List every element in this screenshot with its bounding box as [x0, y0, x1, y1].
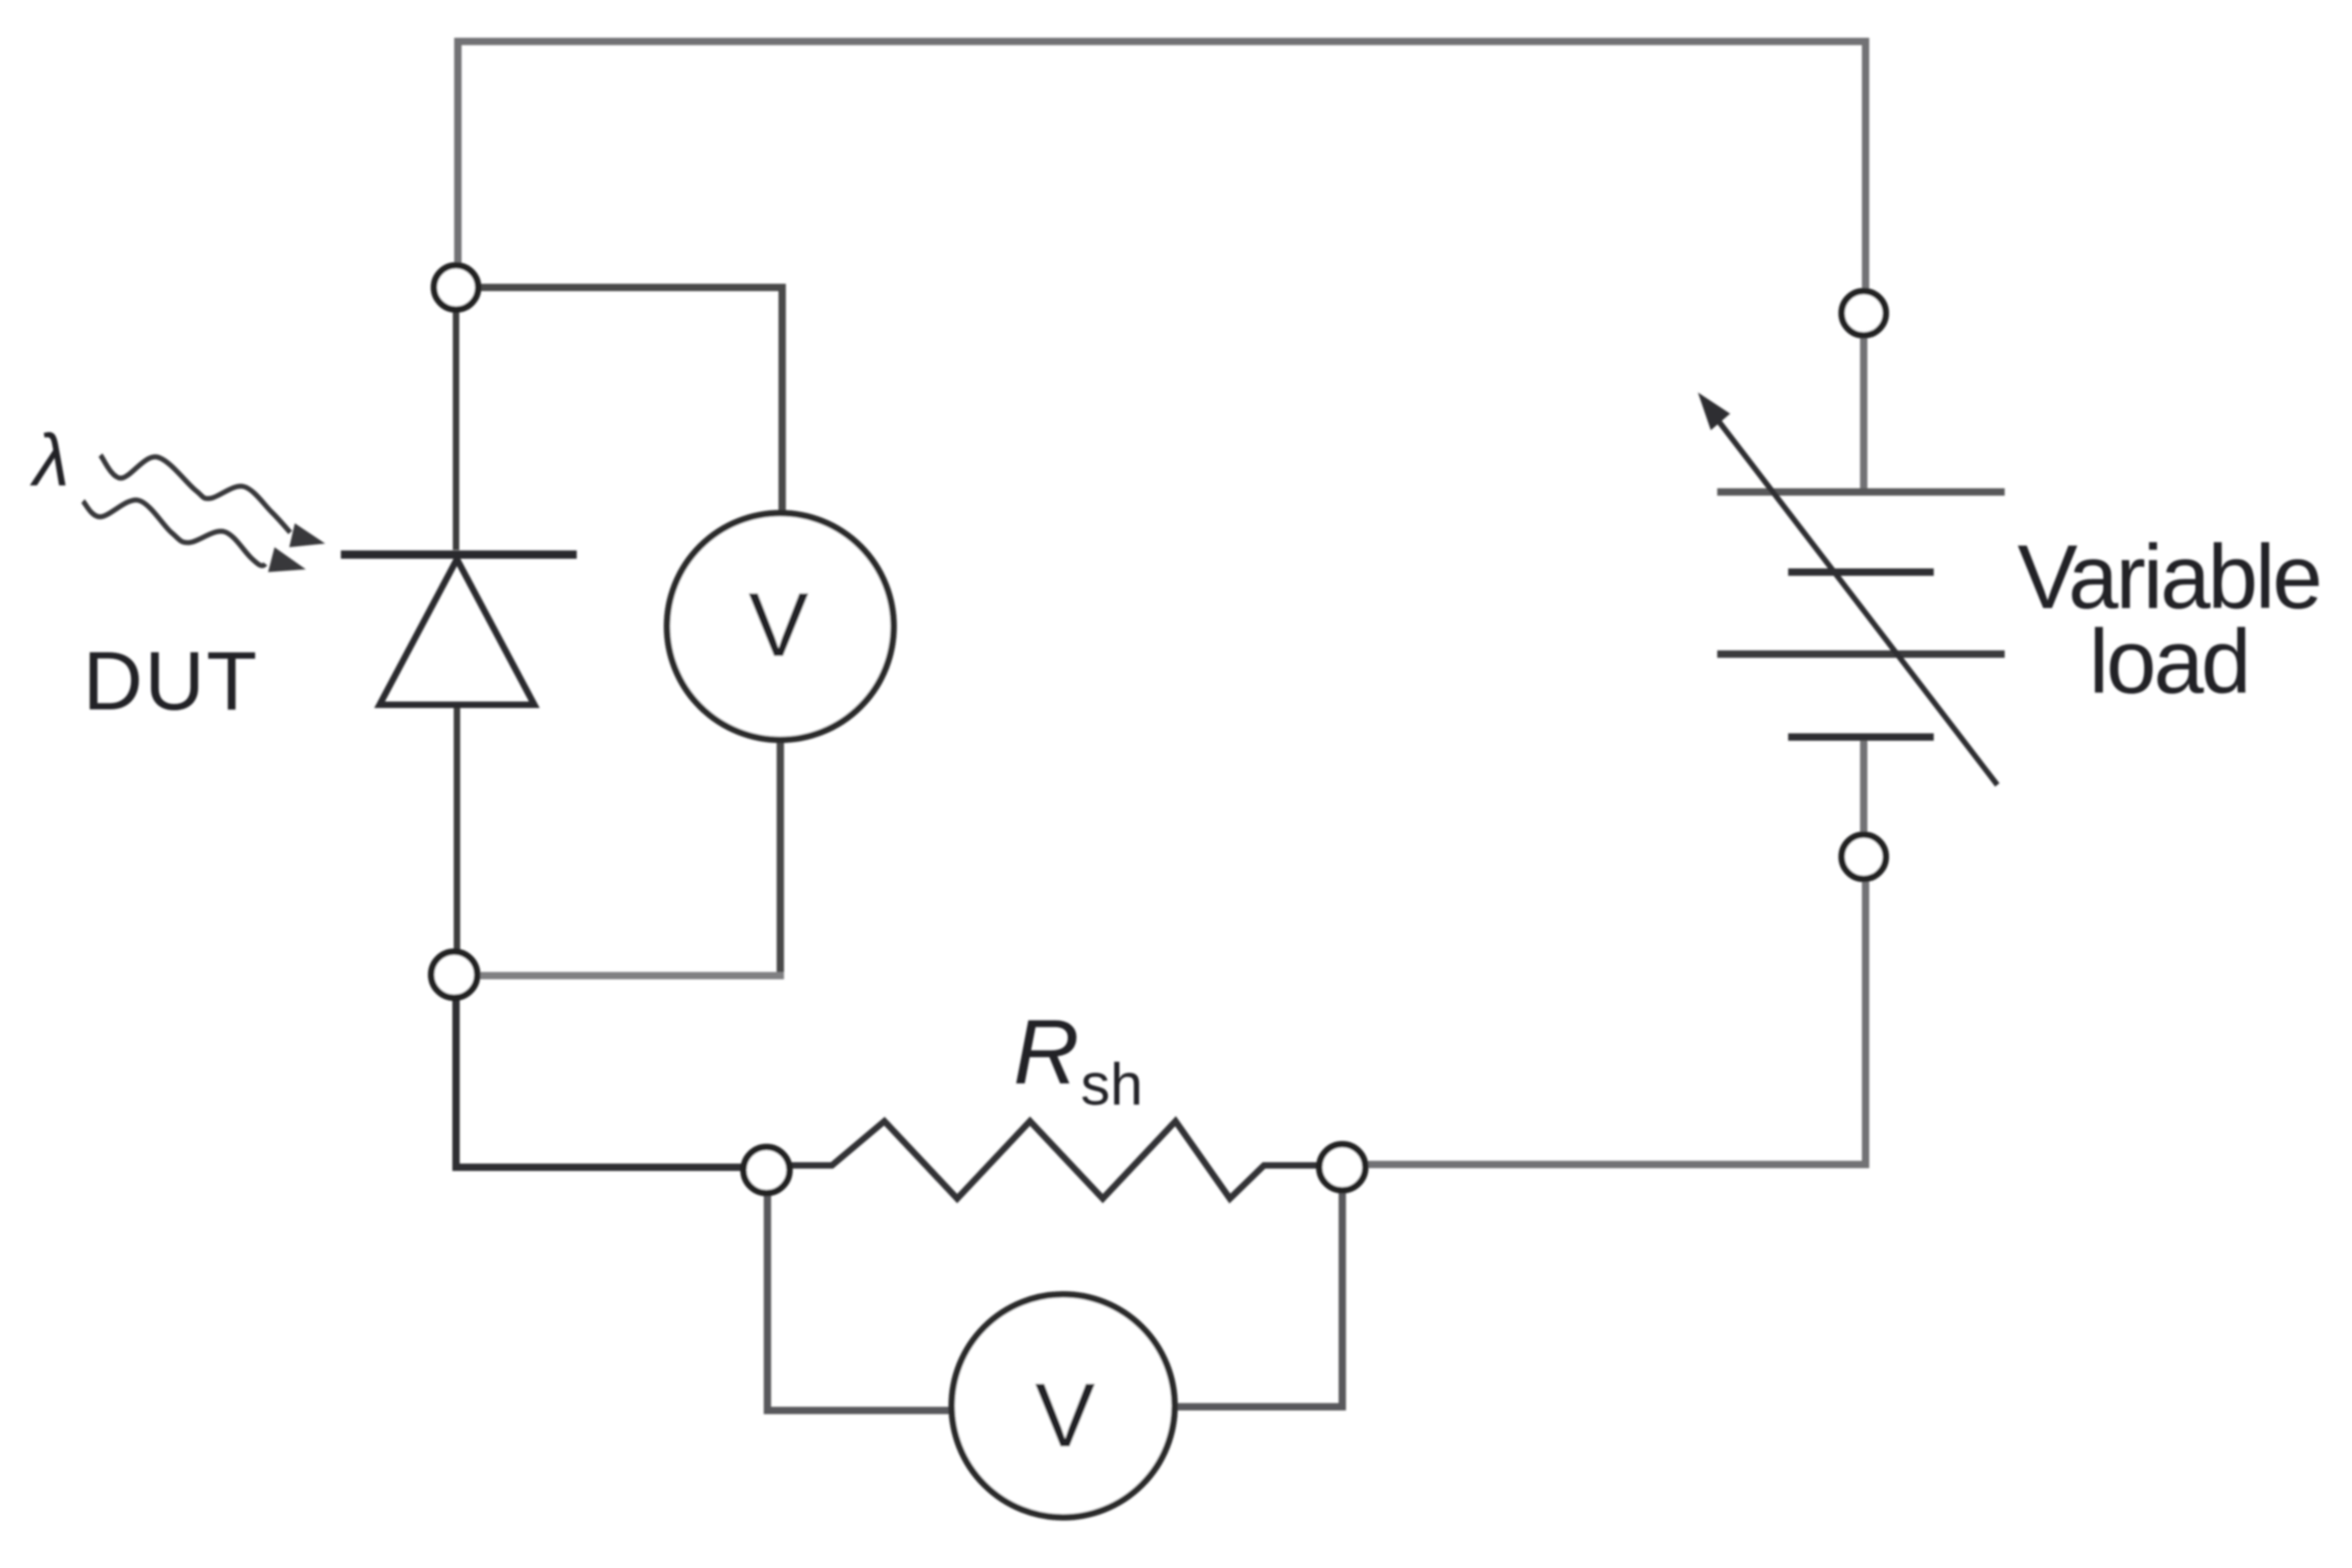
- svg-text:V: V: [1035, 1364, 1094, 1466]
- svg-text:λ: λ: [29, 419, 69, 501]
- svg-text:load: load: [2089, 611, 2248, 712]
- svg-text:sh: sh: [1081, 1051, 1143, 1117]
- svg-text:DUT: DUT: [83, 636, 259, 728]
- svg-text:R: R: [1013, 1000, 1080, 1103]
- svg-text:V: V: [748, 574, 808, 675]
